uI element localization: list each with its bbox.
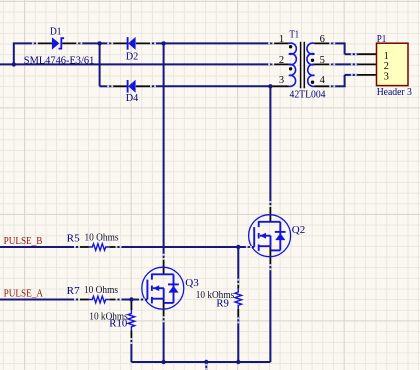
- svg-text:6: 6: [320, 34, 325, 45]
- svg-text:R7: R7: [67, 285, 81, 297]
- svg-text:1: 1: [279, 34, 284, 45]
- svg-text:Header 3: Header 3: [377, 86, 412, 98]
- svg-text:2: 2: [279, 55, 284, 66]
- svg-text:2: 2: [384, 61, 389, 72]
- svg-text:3: 3: [279, 75, 284, 86]
- svg-text:Q2: Q2: [292, 224, 306, 236]
- svg-text:10 Ohms: 10 Ohms: [85, 232, 119, 244]
- svg-text:D4: D4: [126, 92, 139, 104]
- svg-text:P1: P1: [377, 33, 387, 45]
- svg-text:4: 4: [320, 75, 326, 86]
- svg-text:10 Ohms: 10 Ohms: [84, 284, 118, 296]
- svg-text:PULSE_B: PULSE_B: [4, 235, 43, 247]
- svg-text:R9: R9: [216, 297, 229, 309]
- svg-text:SML4746-E3/61: SML4746-E3/61: [24, 55, 95, 67]
- svg-text:3: 3: [384, 71, 389, 82]
- svg-text:D1: D1: [50, 26, 62, 38]
- svg-text:PULSE_A: PULSE_A: [4, 288, 44, 300]
- svg-text:R10: R10: [109, 318, 127, 330]
- svg-text:Q3: Q3: [185, 277, 199, 289]
- svg-text:R5: R5: [67, 232, 80, 244]
- svg-text:T1: T1: [290, 29, 300, 41]
- svg-text:D2: D2: [126, 51, 139, 63]
- svg-text:5: 5: [320, 55, 325, 66]
- svg-text:42TL004: 42TL004: [290, 89, 327, 101]
